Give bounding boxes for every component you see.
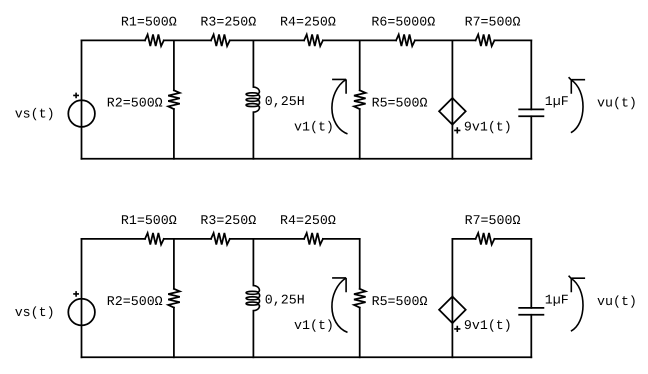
inductor L2 0,25H (coil) (246, 286, 260, 311)
svg-text:R3=250Ω: R3=250Ω (200, 15, 256, 30)
resistor R1 bottom (horizontal zigzag) (145, 233, 164, 245)
voltage arrow v1(t) bottom (curved arc with corner arrowhead) (332, 278, 348, 333)
dependent source U1 diamond (439, 98, 466, 125)
wire: bottom-circuit top horizontal between R3 and R4 (230, 238, 304, 240)
svg-text:R5=500Ω: R5=500Ω (372, 95, 428, 110)
wire: bottom-circuit top horizontal from diamond node to R7 (452, 238, 475, 240)
svg-text:v1(t): v1(t) (294, 318, 334, 333)
wire: bottom-circuit top-left vertical (left branch with source) (81, 239, 83, 357)
voltage arrow vu(t) bottom (curved arc with corner arrowhead) (569, 276, 586, 332)
node: inductor branch vertical wire upper part bottom-circuit (252, 239, 254, 286)
svg-text:0,25H: 0,25H (265, 293, 305, 308)
wire: bottom-circuit top horizontal between R4 and R5 corner (323, 238, 360, 240)
dependent source U2 diamond (439, 297, 466, 324)
resistor R4 bottom (horizontal zigzag) (304, 233, 323, 245)
wire: top horizontal between R6 and R7 (415, 39, 476, 41)
wire: right vertical above capacitor (530, 40, 532, 109)
svg-text:R2=500Ω: R2=500Ω (107, 294, 163, 309)
wire: R2 branch vertical lower part (173, 109, 175, 159)
wire: bottom-circuit top horizontal between R7 and right corner (494, 238, 531, 240)
svg-text:R4=250Ω: R4=250Ω (280, 15, 336, 30)
wire: right vertical below capacitor (530, 116, 532, 159)
dependent source U2 plus sign (454, 326, 460, 332)
wire: inductor branch vertical lower part (252, 112, 254, 159)
wire: bottom horizontal rail bottom-circuit (82, 356, 532, 358)
voltage source VS2 circle (68, 299, 95, 326)
wire: R5 branch vertical lower part (359, 109, 361, 159)
svg-text:1µF: 1µF (545, 293, 569, 308)
svg-text:R1=500Ω: R1=500Ω (121, 15, 177, 30)
svg-text:R6=5000Ω: R6=5000Ω (371, 15, 435, 30)
voltage source VS1 plus sign (73, 93, 79, 99)
wire: R5 branch vertical lower part bottom-circuit (359, 308, 361, 358)
wire: inductor branch vertical lower part bottom-circuit (252, 311, 254, 358)
svg-text:9v1(t): 9v1(t) (464, 120, 512, 135)
node: R5 branch vertical wire upper part bottom-circuit (359, 239, 361, 289)
wire: dependent source branch vertical lower part (451, 125, 453, 159)
svg-text:9v1(t): 9v1(t) (464, 318, 512, 333)
wire: dependent source branch vertical lower part bottom-circuit (451, 323, 453, 357)
voltage arrow v1(t) (curved arc with corner arrowhead) (332, 79, 348, 133)
capacitor C1 plates (519, 109, 543, 116)
svg-text:R7=500Ω: R7=500Ω (465, 15, 521, 30)
node: R5 branch vertical wire upper part (359, 40, 361, 90)
svg-text:R2=500Ω: R2=500Ω (107, 95, 163, 110)
svg-text:R3=250Ω: R3=250Ω (200, 213, 256, 228)
wire: bottom-circuit top horizontal left of R1 (82, 238, 146, 240)
wire: top horizontal segment left of R1 (82, 39, 146, 41)
wire: bottom-circuit top horizontal between R1 and R3 (164, 238, 211, 240)
svg-text:vu(t): vu(t) (597, 95, 637, 110)
node: R2 branch vertical wire upper part (173, 40, 175, 90)
svg-text:vs(t): vs(t) (15, 107, 55, 122)
resistor R2 (vertical zigzag) (168, 90, 180, 109)
resistor R6 (horizontal zigzag) (396, 35, 415, 47)
svg-text:0,25H: 0,25H (265, 94, 305, 109)
resistor R1 (horizontal zigzag) (145, 35, 164, 47)
wire: top-left vertical (left branch with source) (81, 40, 83, 158)
svg-text:1µF: 1µF (545, 94, 569, 109)
node: dependent source branch vertical wire upper part (451, 40, 453, 98)
svg-text:R1=500Ω: R1=500Ω (121, 213, 177, 228)
capacitor C2 plates (519, 308, 543, 315)
node: dependent source branch vertical wire upper part bottom-circuit (451, 239, 453, 297)
svg-text:R5=500Ω: R5=500Ω (372, 294, 428, 309)
wire: top horizontal between R4 and R6 (323, 39, 396, 41)
resistor R5 (vertical zigzag) (354, 90, 366, 109)
resistor R7 bottom (horizontal zigzag) (476, 233, 495, 245)
svg-text:vu(t): vu(t) (597, 294, 637, 309)
svg-text:vs(t): vs(t) (15, 305, 55, 320)
svg-text:R4=250Ω: R4=250Ω (280, 213, 336, 228)
inductor L1 0,25H (coil) (246, 87, 260, 112)
resistor R5 bottom (vertical zigzag) (354, 289, 366, 308)
wire: right vertical below capacitor bottom-circuit (530, 315, 532, 358)
resistor R2 bottom (vertical zigzag) (168, 289, 180, 308)
node: R2 branch vertical wire upper part bottom-circuit (173, 239, 175, 289)
voltage source VS2 plus sign (73, 291, 79, 297)
resistor R7 (horizontal zigzag) (476, 35, 495, 47)
wire: top horizontal between R1 and R3 (164, 39, 211, 41)
svg-text:R7=500Ω: R7=500Ω (465, 213, 521, 228)
wire: R2 branch vertical lower part bottom-circuit (173, 308, 175, 358)
voltage arrow vu(t) (curved arc with corner arrowhead) (569, 77, 586, 133)
resistor R3 (horizontal zigzag) (211, 35, 230, 47)
voltage source VS1 circle (68, 100, 95, 127)
dependent source plus sign (454, 127, 460, 133)
node: inductor branch vertical wire upper part (252, 40, 254, 87)
resistor R3 bottom (horizontal zigzag) (211, 233, 230, 245)
resistor R4 (horizontal zigzag) (304, 35, 323, 47)
wire: top horizontal between R7 and right corner (494, 39, 531, 41)
wire: bottom horizontal (ground rail) (82, 158, 532, 160)
wire: top horizontal between R3 and R4 (230, 39, 304, 41)
wire: right vertical above capacitor bottom-circuit (530, 239, 532, 308)
svg-text:v1(t): v1(t) (294, 120, 334, 135)
